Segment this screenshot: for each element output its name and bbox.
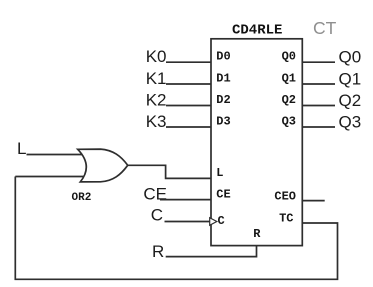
- svg-text:D3: D3: [216, 114, 230, 128]
- pin CE: [216, 187, 230, 201]
- svg-text:R: R: [152, 242, 164, 261]
- wire K0 to D0: [166, 61, 211, 63]
- pin Q3: [282, 114, 296, 128]
- svg-text:Q3: Q3: [339, 113, 362, 132]
- label CT: [313, 18, 337, 38]
- svg-text:CE: CE: [216, 187, 230, 201]
- svg-text:C: C: [151, 206, 163, 225]
- svg-text:TC: TC: [279, 212, 293, 226]
- wire Q3: [302, 126, 335, 128]
- svg-text:R: R: [253, 227, 261, 241]
- pin Q0: [282, 50, 296, 64]
- wire CE: [160, 199, 211, 201]
- node K1: [146, 69, 167, 88]
- wire TC feedback loop to OR2: [15, 177, 337, 280]
- wire CEO stub: [302, 200, 324, 202]
- node Q0: [339, 48, 362, 67]
- pin CEO: [274, 189, 296, 203]
- pin C: [218, 214, 225, 228]
- svg-text:K3: K3: [146, 112, 167, 131]
- svg-text:K1: K1: [146, 69, 167, 88]
- svg-text:D0: D0: [216, 50, 230, 64]
- node Q1: [339, 70, 362, 89]
- pin R: [253, 227, 261, 241]
- pin TC: [279, 212, 293, 226]
- pin Q1: [282, 71, 296, 85]
- wire Q0: [302, 61, 335, 63]
- label CD4RLE: [232, 23, 282, 39]
- node K3: [146, 112, 167, 131]
- clock triangle pin C: [210, 218, 217, 226]
- svg-text:Q1: Q1: [282, 71, 296, 85]
- wire K2 to D2: [166, 105, 211, 107]
- svg-text:CD4RLE: CD4RLE: [232, 23, 282, 39]
- pin D0: [216, 50, 230, 64]
- svg-text:CEO: CEO: [274, 189, 296, 203]
- wire C: [165, 221, 210, 223]
- svg-text:CE: CE: [143, 185, 167, 204]
- chip U1 CD4RLE body: [211, 39, 302, 246]
- node C input label: [151, 206, 163, 225]
- wire feedback to OR2 input B: [15, 176, 84, 178]
- svg-text:OR2: OR2: [72, 192, 92, 204]
- node K2: [146, 91, 167, 110]
- label OR2: [72, 192, 92, 204]
- node Q3: [339, 113, 362, 132]
- node L input label: [17, 139, 26, 158]
- svg-text:Q2: Q2: [339, 91, 362, 110]
- pin D1: [216, 71, 230, 85]
- node CE input label: [143, 185, 167, 204]
- pin D2: [216, 93, 230, 107]
- svg-text:Q2: Q2: [282, 93, 296, 107]
- wire K1 to D1: [166, 83, 211, 85]
- wire OR2 output to L pin: [128, 165, 211, 178]
- svg-text:K2: K2: [146, 91, 167, 110]
- svg-text:Q1: Q1: [339, 70, 362, 89]
- wire Q1: [302, 83, 335, 85]
- svg-text:C: C: [218, 214, 225, 228]
- svg-text:CT: CT: [313, 18, 337, 38]
- pin Q2: [282, 93, 296, 107]
- svg-text:Q0: Q0: [339, 48, 362, 67]
- wire K3 to D3: [166, 126, 211, 128]
- svg-text:Q3: Q3: [282, 114, 296, 128]
- pin D3: [216, 114, 230, 128]
- svg-text:D1: D1: [216, 71, 230, 85]
- or-gate OR2: [78, 149, 128, 182]
- pin L: [216, 166, 223, 180]
- svg-text:D2: D2: [216, 93, 230, 107]
- svg-text:L: L: [17, 139, 26, 158]
- node Q2: [339, 91, 362, 110]
- wire Q2: [302, 105, 335, 107]
- wire R to R pin: [166, 246, 257, 257]
- node R input label: [152, 242, 164, 261]
- svg-text:L: L: [216, 166, 223, 180]
- svg-text:K0: K0: [146, 47, 167, 66]
- svg-text:Q0: Q0: [282, 50, 296, 64]
- node K0: [146, 47, 167, 66]
- wire L to OR2 input A: [27, 154, 85, 156]
